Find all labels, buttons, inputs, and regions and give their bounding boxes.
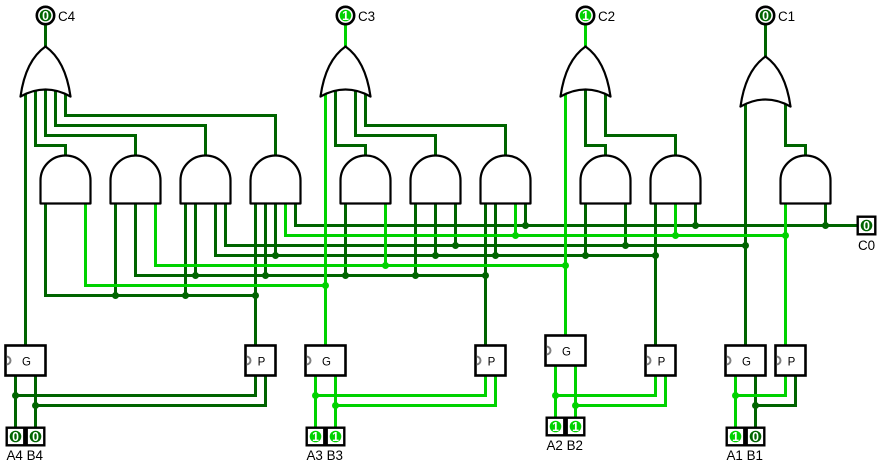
junction node (785,235) xyxy=(782,232,789,239)
junction node (525,225) xyxy=(522,222,529,229)
subcircuit G3 xyxy=(306,346,346,376)
svg-text:0: 0 xyxy=(762,8,769,23)
junction node (575,405) xyxy=(572,402,579,409)
svg-text:P: P xyxy=(658,357,666,369)
junction node (15,395) xyxy=(12,392,19,399)
svg-text:1: 1 xyxy=(332,429,339,444)
input pin B2 value 1 xyxy=(567,418,585,436)
wire net A4 branch to P4 box input1 xyxy=(16,376,256,396)
wire net P1 bus from U4 input4 to P1 vertical xyxy=(286,204,786,236)
wire net C0 stub to U9 input3 xyxy=(694,204,697,227)
subcircuit P2 xyxy=(646,346,676,376)
junction node (555,395) xyxy=(552,392,559,399)
junction node (335,405) xyxy=(332,402,339,409)
wire net P2 stub to U8 input1 xyxy=(584,204,587,257)
junction node (115,295) xyxy=(112,292,119,299)
input pin B4 value 0 xyxy=(27,428,45,446)
wire OR1 input3 from U2 output (net u2) xyxy=(46,90,136,157)
junction node (825,225) xyxy=(822,222,829,229)
input pin B3 value 1 xyxy=(327,428,345,446)
junction node (415,275) xyxy=(412,272,419,279)
svg-text:C0: C0 xyxy=(858,238,875,253)
svg-text:G: G xyxy=(562,347,571,359)
wire OR3 input3 from U9 output (net u9) xyxy=(606,91,676,157)
AND gate U3 xyxy=(181,156,231,204)
svg-text:0: 0 xyxy=(32,429,39,444)
junction node (755,405) xyxy=(752,402,759,409)
wire net P1 stub to U9 input2 xyxy=(674,204,677,237)
svg-text:1: 1 xyxy=(572,419,579,434)
input pin B1 value 0 xyxy=(747,428,765,446)
wire net P2: P2 box output up to U9 input1 xyxy=(654,204,657,347)
junction node (675,235) xyxy=(672,232,679,239)
OR gate OR3 (C2) xyxy=(561,47,611,97)
wire net B3 pin to G3 box input2 xyxy=(334,376,337,428)
junction node (185,295) xyxy=(182,292,189,299)
wire net A2 branch to P2 box input1 xyxy=(556,376,656,396)
OR gate OR1 (C4) xyxy=(21,47,71,97)
svg-text:0: 0 xyxy=(42,8,49,23)
AND gate U7 xyxy=(481,156,531,204)
junction node (195,275) xyxy=(192,272,199,279)
junction node (265,275) xyxy=(262,272,269,279)
svg-text:A1 B1: A1 B1 xyxy=(727,448,763,463)
wire net G1: OR4 input1 down to G1 box output xyxy=(744,104,747,347)
output pin C3 value 1 xyxy=(337,7,354,24)
svg-text:P: P xyxy=(258,357,266,369)
subcircuit P4 xyxy=(246,346,276,376)
wire net A4 pin to G4 box input1 xyxy=(14,376,17,428)
AND gate U4 xyxy=(251,156,301,204)
wire net G2 bus from U2 input3 to G2 vertical xyxy=(156,204,566,266)
wire net A3 branch to P3 box input1 xyxy=(316,376,486,396)
wire net P3 bus from U2 input2 to P3 vertical xyxy=(136,204,486,276)
input pin A2 value 1 xyxy=(547,418,565,436)
svg-text:G: G xyxy=(742,357,751,369)
wire net P4 stub to U3 input1 xyxy=(184,204,187,297)
junction node (435,255) xyxy=(432,252,439,259)
output pin C2 value 1 xyxy=(577,7,594,24)
input pin C0 value 0 xyxy=(858,217,876,235)
wire net B1 pin to G1 box input2 xyxy=(754,376,757,428)
AND gate U9 xyxy=(651,156,701,204)
subcircuit G4 xyxy=(6,346,46,376)
wire OR2 input4 from U7 output (net u7) xyxy=(366,94,506,157)
net C4 output wire xyxy=(44,25,47,49)
wire net P3: P3 box output up to U7 input1 xyxy=(484,204,487,347)
wire OR1 input2 from U1 output (net u1) xyxy=(36,91,66,157)
AND gate U6 xyxy=(411,156,461,204)
svg-text:0: 0 xyxy=(12,429,19,444)
junction node (385,265) xyxy=(382,262,389,269)
wire net G3 bus from U1 input2 to G3 vertical xyxy=(86,204,326,286)
junction node (495,255) xyxy=(492,252,499,259)
junction node (255,295) xyxy=(252,292,259,299)
output pin C4 value 0 xyxy=(37,7,54,24)
wire net B2 branch to P2 box input2 xyxy=(576,376,666,406)
junction node (455,245) xyxy=(452,242,459,249)
svg-text:1: 1 xyxy=(312,429,319,444)
wire OR3 input2 jog to U8 output (net u8) xyxy=(586,146,606,157)
AND gate U5 xyxy=(341,156,391,204)
wire net P4 stub to U2 input1 xyxy=(114,204,117,297)
wire net C0 stub to U7 input4 xyxy=(524,204,527,227)
wire net G2 stub to U5 input2 xyxy=(384,204,387,267)
wire net P1: P1 box output up to U10 input1 xyxy=(784,204,787,347)
wire net A2 pin to G2 box input1 xyxy=(554,366,557,418)
svg-text:C4: C4 xyxy=(58,9,76,24)
wire net C3 output wire xyxy=(344,25,347,49)
wire net G2: OR3 input1 down to G2 box output xyxy=(564,94,567,337)
subcircuit G1 xyxy=(726,346,766,376)
wire net P3 stub to U6 input1 xyxy=(414,204,417,277)
junction node (325,285) xyxy=(322,282,329,289)
wire net P3 stub to U3 input2 xyxy=(194,204,197,277)
input pin A4 value 0 xyxy=(7,428,25,446)
AND gate U8 xyxy=(581,156,631,204)
wire OR3 input2 vertical (net u8) xyxy=(584,90,587,146)
wire net C0 bus from U4 input5 to pin C0 xyxy=(296,204,857,226)
wire net G4: OR1 input1 down to G4 box output xyxy=(24,94,27,347)
svg-text:1: 1 xyxy=(732,429,739,444)
wire net P2 stub to U4 input3 xyxy=(274,204,277,257)
junction node (35,405) xyxy=(32,402,39,409)
wire OR2 input3 from U6 output (net u6) xyxy=(356,90,436,157)
wire net B3 branch to P3 box input2 xyxy=(336,376,496,406)
wire net P3 stub to U4 input2 xyxy=(264,204,267,277)
junction node (345,275) xyxy=(342,272,349,279)
svg-text:1: 1 xyxy=(552,419,559,434)
wire net C2 output wire xyxy=(584,25,587,49)
junction node (515,235) xyxy=(512,232,519,239)
wire net P4: P4 box output up to U4 input1 xyxy=(254,204,257,347)
junction node (585,255) xyxy=(582,252,589,259)
junction node (485,275) xyxy=(482,272,489,279)
wire net G1 stub to U8 input2 xyxy=(624,204,627,247)
input pin A3 value 1 xyxy=(307,428,325,446)
wire net B4 pin to G4 box input2 xyxy=(34,376,37,428)
svg-text:C2: C2 xyxy=(598,9,615,24)
wire OR1 input4 from U3 output (net u3) xyxy=(56,91,206,157)
junction node (625,245) xyxy=(622,242,629,249)
subcircuit P1 xyxy=(776,346,806,376)
wire net B4 branch to P4 box input2 xyxy=(36,376,266,406)
wire net P3 stub to U5 input1 xyxy=(344,204,347,277)
wire OR2 input2 from U5 output (net u5) xyxy=(336,91,366,157)
svg-text:C3: C3 xyxy=(358,9,375,24)
svg-text:G: G xyxy=(322,357,331,369)
subcircuit G2 xyxy=(546,336,586,366)
wire net B1 branch to P1 box input2 xyxy=(756,376,796,406)
AND gate U10 xyxy=(781,156,831,204)
wire net B2 pin to G2 box input2 xyxy=(574,366,577,418)
output pin C1 value 0 xyxy=(757,7,774,24)
junction node (695,225) xyxy=(692,222,699,229)
junction node (735,395) xyxy=(732,392,739,399)
wire OR1 input5 from U4 output (net u4) xyxy=(66,94,276,157)
AND gate U2 xyxy=(111,156,161,204)
wire OR4 input2 from U10 output (net u10) xyxy=(786,104,806,157)
svg-text:A3 B3: A3 B3 xyxy=(307,448,343,463)
svg-text:P: P xyxy=(488,357,496,369)
wire net A3 pin to G3 box input1 xyxy=(314,376,317,428)
wire net P2 stub to U7 input2 xyxy=(494,204,497,257)
wire net A1 pin to G1 box input1 xyxy=(734,376,737,428)
AND gate U1 xyxy=(41,156,91,204)
svg-text:1: 1 xyxy=(342,8,349,23)
junction node (565,265) xyxy=(562,262,569,269)
junction node (275,255) xyxy=(272,252,279,259)
wire net C0 stub to U10 input2 xyxy=(824,204,827,227)
svg-text:A4 B4: A4 B4 xyxy=(7,448,44,463)
OR gate OR4 (C1) xyxy=(741,57,791,107)
svg-text:G: G xyxy=(22,357,31,369)
svg-text:1: 1 xyxy=(582,8,589,23)
wire net C1 output wire xyxy=(764,25,767,59)
svg-text:0: 0 xyxy=(863,218,870,233)
wire net G1 bus from U3 input4 to G1 vertical xyxy=(226,204,746,246)
subcircuit P3 xyxy=(476,346,506,376)
wire net P2 stub to U6 input2 xyxy=(434,204,437,257)
svg-text:P: P xyxy=(788,357,796,369)
wire net G3: OR2 input1 down to G3 box output xyxy=(324,94,327,347)
OR gate OR2 (C3) xyxy=(321,47,371,97)
svg-text:0: 0 xyxy=(752,429,759,444)
svg-text:A2 B2: A2 B2 xyxy=(547,438,583,453)
wire net P1 stub to U7 input3 xyxy=(514,204,517,237)
wire net P4 bus from U1 input1 to P4 vertical xyxy=(46,204,256,296)
wire net G1 stub to U6 input3 xyxy=(454,204,457,247)
input pin A1 value 1 xyxy=(727,428,745,446)
wire net A1 branch to P1 box input1 xyxy=(736,376,786,396)
junction node (745,245) xyxy=(742,242,749,249)
junction node (655,255) xyxy=(652,252,659,259)
junction node (315,395) xyxy=(312,392,319,399)
svg-text:C1: C1 xyxy=(778,9,795,24)
wire net P2 bus from U3 input3 to P2 vertical xyxy=(216,204,656,256)
